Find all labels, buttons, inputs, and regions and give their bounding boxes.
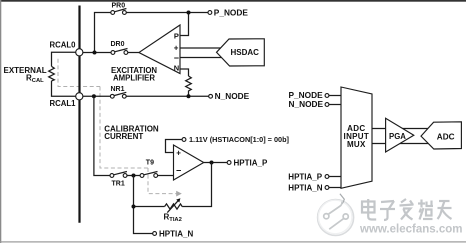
- svg-text:CURRENT: CURRENT: [104, 132, 143, 141]
- wire TIA output: [204, 162, 228, 164]
- watermark logo: [318, 194, 354, 236]
- svg-text:HPTIA_P: HPTIA_P: [288, 172, 322, 181]
- svg-text:T9: T9: [146, 159, 154, 166]
- svg-text:P_NODE: P_NODE: [214, 7, 249, 17]
- svg-text:DR0: DR0: [111, 41, 125, 48]
- svg-text:MUX: MUX: [347, 140, 366, 149]
- op-amp HSTIA: [174, 145, 204, 180]
- label CALIBRATION CURRENT: [104, 124, 159, 141]
- calibration current dashed loop: [58, 59, 182, 197]
- watermark url text: [359, 224, 463, 237]
- wire P feedback to P_NODE: [180, 13, 189, 36]
- svg-text:PGA: PGA: [389, 132, 406, 141]
- svg-text:ADC: ADC: [437, 133, 455, 142]
- svg-text:www.elecfans.com: www.elecfans.com: [359, 224, 462, 236]
- wire N feedback leg: [180, 69, 189, 76]
- node N_NODE terminal: [209, 91, 250, 101]
- wire amp - input to HSDAC: [180, 57, 222, 59]
- wire NR1 row to N_NODE: [83, 95, 209, 97]
- resistor external RCAL: [4, 66, 55, 84]
- svg-text:1.11V (HSTIACON[1:0] = 00b]: 1.11V (HSTIACON[1:0] = 00b]: [189, 135, 290, 144]
- wire mux to ADC pair bottom: [372, 143, 431, 145]
- wire 1.11V bias to + input: [166, 140, 183, 153]
- node RCAL0: [50, 41, 83, 56]
- svg-text:−: −: [176, 166, 181, 176]
- svg-text:+: +: [176, 148, 181, 157]
- wire TR1 to T9: [127, 175, 140, 177]
- mux input wire P_NODE: [289, 90, 342, 100]
- wire RCAL1 down to TR1 row: [94, 96, 110, 175]
- junction dot TIA output: [210, 161, 214, 165]
- switch NR1: [110, 92, 126, 98]
- wire DR0 row: [83, 52, 139, 54]
- label NR1: [111, 86, 125, 93]
- node P_NODE top terminal: [208, 7, 248, 17]
- svg-text:RCAL0: RCAL0: [50, 41, 77, 50]
- svg-text:N_NODE: N_NODE: [289, 99, 324, 109]
- label DR0: [111, 41, 125, 48]
- svg-text:TR1: TR1: [112, 180, 125, 187]
- svg-text:RCAL1: RCAL1: [50, 99, 77, 108]
- svg-text:HPTIA_P: HPTIA_P: [234, 159, 268, 168]
- svg-text:N_NODE: N_NODE: [215, 91, 250, 101]
- svg-text:PR0: PR0: [112, 2, 126, 9]
- op-amp excitation amplifier: [111, 25, 180, 82]
- mux input wire HPTIA_P: [288, 172, 341, 181]
- external RCAL leg wires: [52, 52, 76, 96]
- junction dot RCAL1 branch: [92, 94, 96, 98]
- svg-text:+: +: [174, 44, 179, 53]
- node HPTIA_P terminal: [227, 159, 268, 168]
- svg-text:NR1: NR1: [111, 86, 125, 93]
- switch DR0: [111, 49, 128, 55]
- svg-text:AMPLIFIER: AMPLIFIER: [113, 73, 155, 82]
- label PR0: [112, 2, 126, 9]
- switch PR0: [111, 9, 127, 15]
- mux input wire N_NODE: [289, 99, 342, 109]
- wire mux to ADC pair top: [372, 128, 431, 130]
- switch T9: [140, 172, 158, 178]
- resistor on N leg: [186, 76, 192, 96]
- wire feedback down from output: [182, 163, 211, 207]
- wire PR0 row to P_NODE: [95, 13, 209, 53]
- junction dot feedback tap: [132, 174, 136, 178]
- resistor RTIA2: [164, 198, 183, 223]
- block ADC INPUT MUX: [341, 87, 372, 188]
- block ADC: [421, 122, 461, 149]
- svg-text:HPTIA_N: HPTIA_N: [288, 183, 322, 192]
- svg-text:HPTIA_N: HPTIA_N: [159, 230, 193, 239]
- svg-text:P: P: [174, 32, 179, 41]
- label TR1: [112, 180, 125, 187]
- wire T9 to TIA inverting input: [158, 175, 174, 177]
- block HSDAC: [217, 39, 265, 66]
- node HPTIA_N terminal: [153, 230, 194, 239]
- amplifier PGA: [386, 118, 414, 152]
- junction dot N_NODE: [187, 94, 191, 98]
- svg-text:−: −: [174, 53, 179, 63]
- svg-text:HSDAC: HSDAC: [231, 48, 260, 57]
- label T9: [146, 159, 154, 166]
- switch TR1: [110, 172, 127, 178]
- junction dot P_NODE: [187, 11, 191, 15]
- wire RTIA2 to HPTIA_N branch: [134, 206, 165, 208]
- junction dot RTIA2 tap: [132, 205, 136, 209]
- mux input wire HPTIA_N: [288, 183, 341, 192]
- wire amp + input to HSDAC: [180, 47, 220, 49]
- terminal 1.11V: [182, 135, 289, 144]
- svg-text:N: N: [174, 63, 179, 72]
- node RCAL1: [50, 93, 83, 108]
- wire branch down to HPTIA_N: [134, 176, 153, 234]
- junction dot PR0/DR0 branch: [93, 51, 97, 55]
- bus (left vertical rail): [78, 6, 80, 223]
